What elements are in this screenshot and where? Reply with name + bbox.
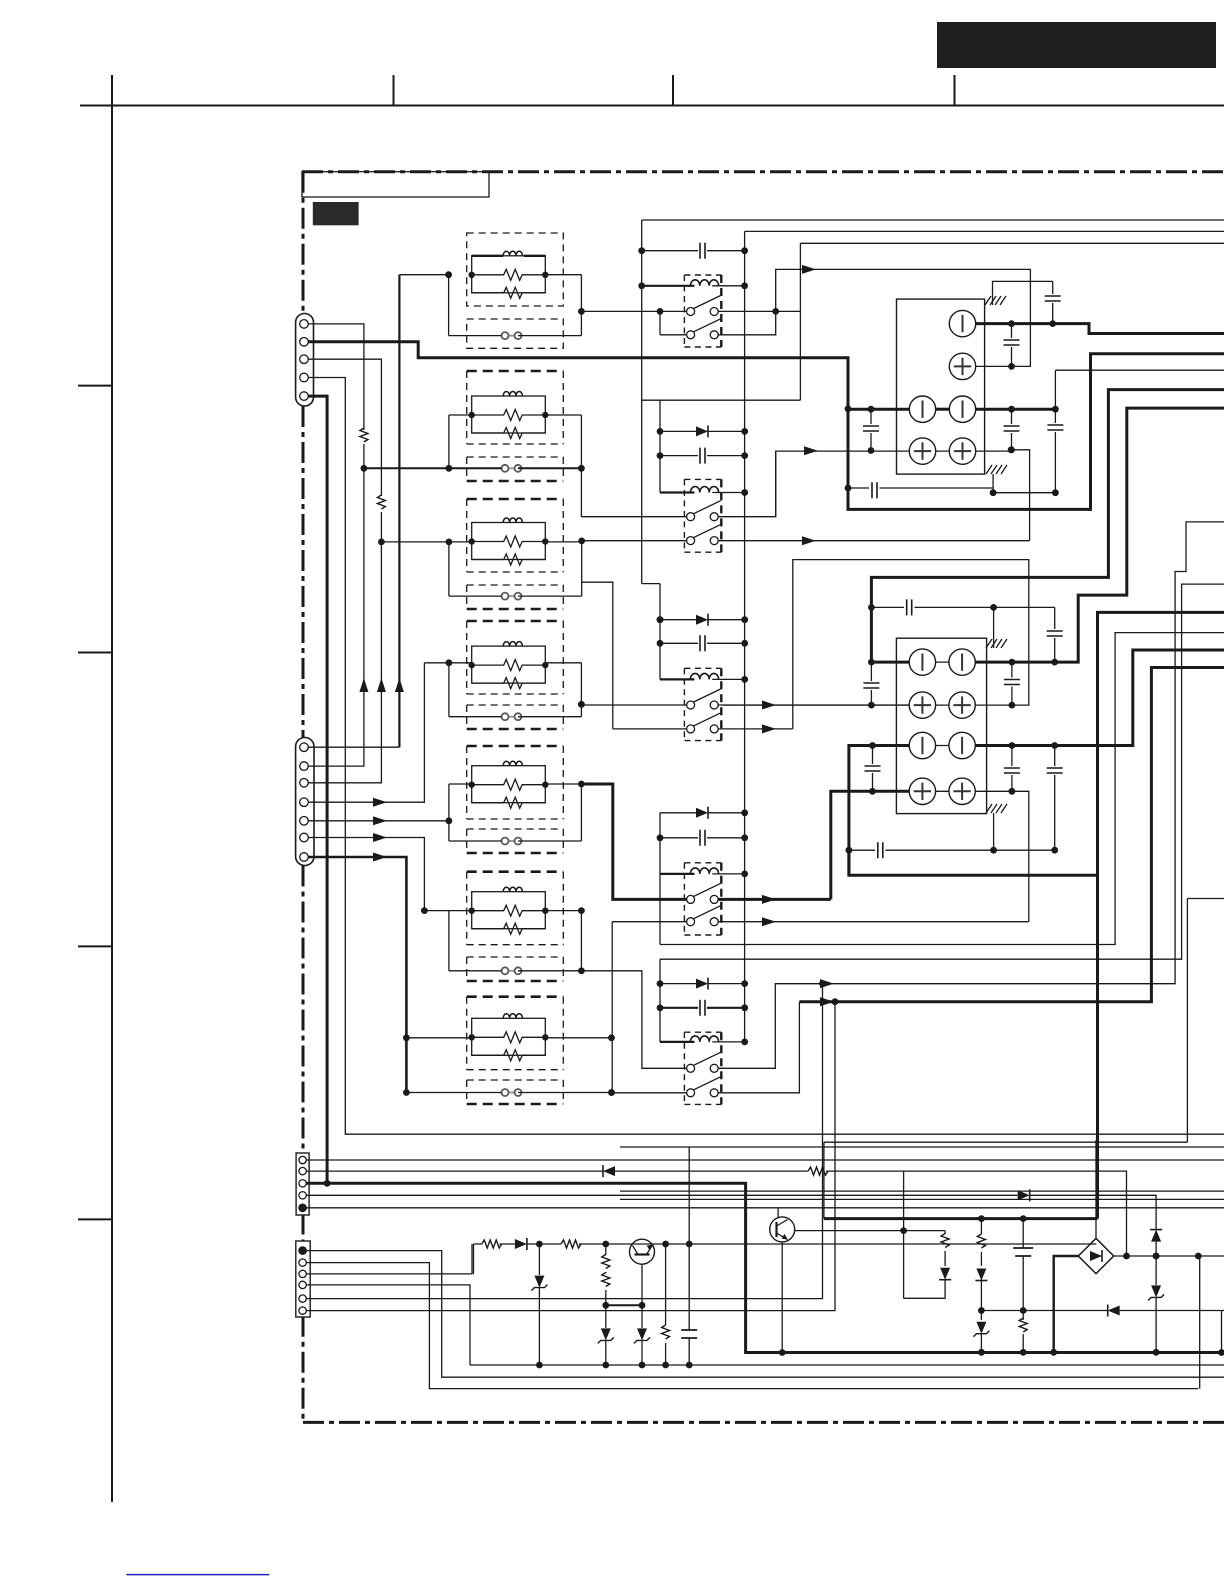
wire RY4 sw1 feed — [581, 784, 686, 899]
zener ZD3 — [641, 1305, 643, 1365]
wire RY5 sw2 row — [612, 1002, 800, 1093]
terminal + D right — [949, 778, 975, 804]
wire -D left thick loop — [849, 746, 1098, 876]
capacitor C-C3 — [1011, 662, 1013, 705]
relay RY1 — [642, 275, 748, 347]
wire row 1199 — [620, 1198, 1224, 1200]
wire RY1 sw1 row — [581, 310, 800, 312]
wire RY4 sw2 left drop — [611, 922, 613, 1093]
wire CN4 pin3 — [306, 1244, 472, 1274]
jumper J6 — [502, 967, 522, 974]
wire RY3 sw2 row — [613, 728, 793, 730]
resistor R-bus3 — [377, 495, 385, 509]
wire -B right thick — [976, 408, 1056, 411]
wire CN1 pin3 bus — [308, 359, 381, 783]
wire net231 — [745, 230, 1224, 232]
terminal - C right — [949, 649, 975, 675]
wire long vertical right — [1187, 899, 1224, 1389]
bottom rail y1365 — [470, 1364, 1224, 1366]
wire RY5 sw1 feed — [581, 971, 686, 1069]
terminal + D left — [909, 778, 935, 804]
wire RY4 sw1 out thick — [718, 898, 831, 901]
wire +D right — [975, 791, 1029, 921]
capacitor C-D4 h-cap row — [853, 849, 1055, 851]
ground G1 top-right of TB1 — [985, 296, 1006, 305]
capacitor C41 — [688, 1244, 690, 1365]
wire CN2 pin7 thick — [308, 857, 406, 1093]
connector CN2 — [296, 738, 314, 866]
wire RY2 sw2 row — [582, 540, 1030, 542]
wire CN4 pin6 — [306, 1002, 835, 1311]
resistor R41 — [482, 1240, 502, 1248]
wire CN3 pin1 — [306, 1159, 1224, 1161]
capacitor C-B4 ground row — [848, 488, 1055, 493]
wire CN2 pin4 — [308, 663, 424, 802]
wire -B left thick — [848, 408, 909, 411]
terminal + C left — [909, 692, 935, 718]
cap column at 1023.2 — [1022, 1219, 1024, 1353]
capacitor C-A2 — [1052, 281, 1054, 323]
cell LC4 — [424, 621, 584, 729]
cell LC2 — [361, 371, 585, 517]
wire CN1 pin1 bus — [308, 324, 364, 468]
wire CN2 pin5 — [308, 820, 449, 822]
cell LC1 — [399, 233, 584, 348]
capacitor CG5 — [657, 1000, 749, 1016]
wire RY4 sw2 row — [612, 921, 1029, 923]
ground G3 top-right of TB2 — [986, 639, 1007, 648]
wire pair links TB1/TB2 — [936, 408, 950, 411]
chain2 R+D+Z at 981.4 — [980, 1219, 982, 1353]
wire thick bus x399 from LC1 — [398, 275, 400, 748]
transistor Q1 — [630, 1239, 655, 1264]
top tick x954 — [954, 75, 956, 106]
top tick x673 — [672, 75, 674, 106]
cell LC6 — [421, 872, 585, 981]
diode DG4 — [660, 807, 748, 819]
capacitor C-C1 h-cap row — [871, 606, 1054, 608]
wire relay5 coil drive row — [660, 584, 1224, 959]
terminal - C left — [909, 649, 935, 675]
resistor R-bus1 — [360, 428, 368, 442]
jumper J4 — [502, 713, 522, 720]
capacitor C-C0 left cap — [870, 662, 872, 705]
capacitor C-B3 column — [1054, 370, 1056, 493]
bridge right lead — [1114, 1255, 1224, 1257]
left tick y652 — [78, 652, 112, 654]
jumper J7 — [502, 1089, 522, 1096]
zener ZD4 column — [1155, 1256, 1157, 1352]
wire CN4 pin4 — [306, 1285, 470, 1365]
cell LC7 — [403, 997, 615, 1104]
terminal + B left — [909, 438, 935, 464]
capacitor CG2 — [657, 448, 749, 464]
diode D41 — [515, 1238, 527, 1250]
transistor Q2 — [770, 1217, 795, 1242]
resistor chain R43 R44 — [605, 1244, 607, 1305]
wire col 641.7 top — [642, 220, 660, 584]
wire CN2 pin6 — [308, 838, 424, 911]
connector CN3 — [296, 1153, 309, 1215]
main rail V1 y1244 — [474, 1243, 1097, 1245]
resistor R45 — [665, 1244, 667, 1365]
right power column: resistor chain RC1 — [903, 1171, 905, 1231]
capacitor CG1 — [638, 243, 748, 259]
board outline dash-dot border — [302, 172, 1224, 1423]
relay RY3 — [660, 668, 748, 740]
wire CN3 pin3 thick rail — [306, 1183, 1222, 1352]
wire row 402.9 — [660, 399, 800, 401]
wire CN3 pin4 + diode D32 — [306, 1195, 1156, 1256]
wire row 1147 — [620, 1146, 1224, 1148]
row 1310.5 with diode D51 — [981, 1310, 1224, 1312]
wire col 660 relay3..5 — [659, 584, 661, 1042]
diode DG3 — [657, 614, 749, 626]
cell LC3 — [378, 499, 585, 609]
wire +C right — [793, 560, 1029, 729]
connector CN4 — [296, 1241, 310, 1317]
wire RY1 sw2 row — [660, 311, 776, 334]
diode DG2 — [657, 425, 749, 437]
wire +B left arrow from RY2 — [776, 451, 910, 517]
relay RY4 — [660, 863, 748, 935]
wire CN1 pin5 thick bus — [308, 396, 327, 1183]
wire net243 — [800, 242, 1224, 244]
terminal - B right — [949, 396, 975, 422]
wire CN4 pin5 — [306, 984, 823, 1299]
jumper J1 — [502, 332, 522, 339]
capacitor C-B2 — [1011, 409, 1013, 450]
wire +C left from RY3 — [723, 704, 909, 706]
capacitor C-B1 left — [870, 409, 872, 450]
terminal - D left — [909, 732, 935, 758]
terminal + A — [949, 353, 975, 379]
jumper J2 — [502, 465, 522, 472]
ground G4 bottom-right of TB2 — [986, 804, 1007, 813]
wire RY5 sw1 out — [718, 522, 1224, 1068]
zener ZD2 — [605, 1305, 607, 1365]
wire CN3 pin5 — [306, 1207, 1224, 1209]
blue link underline bottom-left — [126, 1574, 269, 1576]
wire RY2 sw1 row — [581, 451, 775, 517]
small black label box — [313, 202, 359, 225]
terminal - A — [949, 310, 975, 336]
relay RY5 — [660, 1032, 748, 1104]
diode DG5 — [657, 978, 749, 990]
zener ZD1 — [538, 1244, 540, 1365]
capacitor C-D1 left — [872, 746, 874, 792]
arrow up bus1 — [359, 678, 368, 692]
ground G2 bottom-right of TB1 — [986, 465, 1007, 474]
wire CN1 pin4 bus — [308, 378, 1224, 1135]
capacitor C-C2 — [1054, 607, 1056, 662]
terminal + B right — [949, 438, 975, 464]
left page border vertical — [111, 75, 113, 1502]
left tick y916 — [78, 945, 112, 947]
wire -C left thick — [871, 390, 1224, 662]
wire RY3 sw1 row — [581, 704, 909, 706]
capacitor C-D3 — [1054, 746, 1056, 851]
left tick y1253 — [78, 1218, 112, 1220]
wire row 1191 — [620, 1190, 1224, 1192]
wire col 745 — [744, 231, 746, 1042]
thick ground rail right end — [1218, 1349, 1224, 1356]
wire +D left thick from RY4 — [831, 791, 909, 899]
bridge top lead — [1095, 1140, 1097, 1238]
wire -C right thick — [975, 408, 1224, 662]
wire +A — [776, 269, 1031, 366]
capacitor CG3 — [657, 635, 749, 651]
wire thick step net — [847, 850, 850, 875]
wire CN4 pin2 — [306, 1263, 1198, 1389]
relay RY2 — [660, 479, 748, 552]
capacitor C-A1 — [1011, 324, 1013, 367]
arrow up bus3 — [377, 678, 386, 692]
wire CN4 pin1 — [306, 1251, 1224, 1378]
wire net220 — [642, 219, 1224, 221]
resistor R42 — [561, 1240, 581, 1248]
thick mid rail y1218.6 — [824, 1217, 1098, 1220]
wire -A thick out — [976, 324, 1224, 334]
capacitor C-D2 — [1011, 746, 1013, 792]
wire -D right thick — [975, 650, 1224, 746]
cell LC5 — [446, 746, 585, 853]
jumper J3 — [502, 593, 522, 600]
connector CN1 — [296, 314, 314, 407]
terminal + C right — [949, 692, 975, 718]
callout box under top border — [302, 172, 489, 197]
capacitor CG4 — [657, 830, 749, 846]
wire CN1 pin2 thick — [308, 342, 1224, 510]
top tick x393 — [393, 75, 395, 106]
wire CN3 pin2 + diode D31 + resistor R31 — [306, 1171, 1127, 1256]
black title block top-right — [937, 22, 1216, 68]
terminal - B left — [909, 396, 935, 422]
left tick y386 — [78, 385, 112, 387]
arrow up bus399 — [395, 678, 404, 692]
terminal - D right — [949, 732, 975, 758]
bridge rectifier BR1 — [1078, 1238, 1113, 1273]
bridge left lead — [1054, 1256, 1079, 1352]
wire Q2 collector row — [795, 1230, 904, 1232]
wire relay4 coil drive row — [660, 633, 1224, 945]
wire +B row4 — [936, 450, 1030, 541]
jumper J5 — [502, 838, 522, 845]
